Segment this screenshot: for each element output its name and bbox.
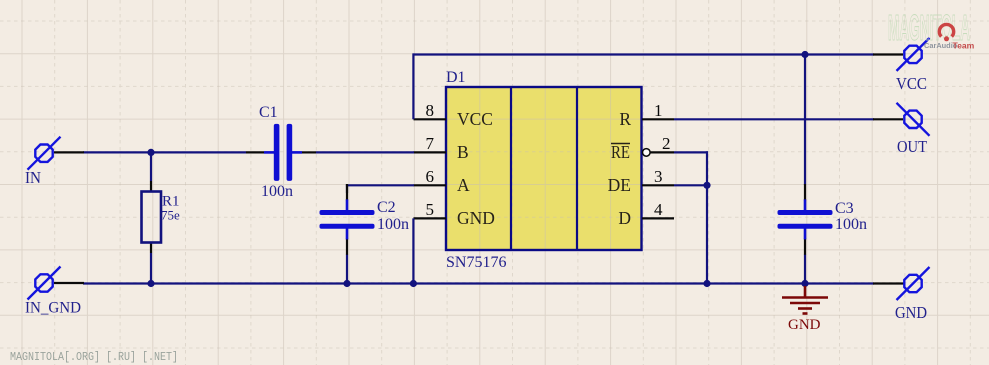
resistor R1	[142, 181, 162, 253]
pin 8 (VCC)	[414, 101, 493, 129]
wire RE/DE tie vertical	[706, 151, 708, 283]
watermark MAGNITOLA[.ORG]	[10, 351, 178, 364]
pin 1 (R)	[619, 101, 674, 129]
wire C2 bottom lead	[346, 254, 348, 283]
junction pin5/rail	[410, 280, 417, 287]
pin 3 (DE)	[608, 167, 674, 195]
pin 6 (A)	[414, 167, 471, 195]
designator R1	[162, 194, 180, 210]
svg-text:IN_GND: IN_GND	[25, 300, 81, 317]
svg-text:GND: GND	[788, 317, 821, 333]
svg-text:D1: D1	[446, 69, 466, 86]
stub VCC port	[873, 53, 903, 55]
svg-text:Team: Team	[953, 41, 975, 51]
part number SN75176	[446, 254, 506, 271]
port VCC	[897, 38, 930, 71]
svg-text:RE: RE	[611, 142, 630, 162]
svg-text:8: 8	[426, 101, 435, 120]
svg-text:GND: GND	[457, 208, 495, 228]
net label IN	[25, 168, 41, 187]
svg-text:DE: DE	[608, 175, 631, 195]
svg-text:5: 5	[426, 200, 435, 219]
port IN_GND	[28, 267, 61, 300]
pin 2 (RE)	[611, 134, 674, 162]
wire pin 1 to OUT	[674, 118, 874, 120]
junction C3/rail	[801, 280, 808, 287]
wire pin 6 to C2	[346, 184, 414, 186]
wire R1 bottom	[150, 253, 152, 284]
value 75e	[161, 208, 180, 223]
junction tie/rail	[703, 280, 710, 287]
svg-text:IN: IN	[25, 168, 41, 187]
wire top VCC rail	[413, 53, 874, 55]
junction R1/rail	[147, 280, 154, 287]
svg-text:3: 3	[654, 167, 663, 186]
wire C3 bottom lead	[804, 254, 806, 283]
capacitor C3	[778, 184, 833, 255]
wire R1 top	[150, 152, 152, 181]
pin 7 (B)	[414, 134, 469, 162]
wire pin 2 horizontal	[674, 151, 708, 153]
wire C2 top lead	[346, 184, 348, 193]
junction VCC rail/C3	[801, 51, 808, 58]
svg-text:6: 6	[426, 167, 435, 186]
svg-text:SN75176: SN75176	[446, 254, 506, 271]
port GND	[897, 267, 930, 300]
IC D1 body	[446, 87, 642, 250]
stub GND port	[873, 282, 904, 284]
designator C3	[835, 200, 854, 217]
net label GND (port)	[895, 303, 927, 322]
wire pin 5 drop	[412, 218, 414, 283]
wire pin 8 riser	[412, 53, 414, 119]
svg-text:VCC: VCC	[457, 109, 493, 129]
svg-text:D: D	[618, 208, 631, 228]
net label VCC	[896, 74, 927, 93]
port OUT	[897, 103, 930, 136]
svg-text:2: 2	[662, 134, 671, 153]
pin 5 (GND)	[414, 200, 495, 228]
capacitor C2	[320, 184, 375, 255]
stub IN_GND port	[54, 282, 84, 284]
svg-text:A: A	[457, 175, 470, 195]
logo MAGNITOLA	[888, 7, 975, 51]
svg-text:OUT: OUT	[897, 137, 928, 156]
IC D1 SN75176 outline	[446, 87, 642, 250]
value 100n (C1)	[261, 183, 293, 200]
designator D1	[446, 69, 466, 86]
wire ground rail	[83, 282, 874, 284]
net label IN_GND	[25, 300, 81, 317]
svg-text:100n: 100n	[261, 183, 293, 200]
wire C3 top lead	[804, 55, 806, 186]
svg-text:4: 4	[654, 200, 663, 219]
designator C1	[259, 104, 278, 121]
ground GND power symbol	[782, 286, 828, 314]
wire pin 3 horizontal	[674, 184, 708, 186]
svg-text:GND: GND	[895, 303, 927, 322]
svg-text:R: R	[619, 109, 631, 129]
junction C2/rail	[343, 280, 350, 287]
svg-text:C1: C1	[259, 104, 278, 121]
wire IN to C1	[83, 151, 246, 153]
net label OUT	[897, 137, 928, 156]
svg-text:C3: C3	[835, 200, 854, 217]
svg-text:MAGNITOLA[.ORG] [.RU] [.NET]: MAGNITOLA[.ORG] [.RU] [.NET]	[10, 351, 178, 364]
svg-text:75e: 75e	[161, 208, 180, 223]
svg-text:1: 1	[654, 101, 663, 120]
pin 2 inversion bubble	[643, 149, 651, 157]
value 100n (C2)	[377, 216, 409, 233]
svg-text:B: B	[457, 142, 469, 162]
svg-text:100n: 100n	[835, 216, 867, 233]
stub IN port	[54, 151, 84, 153]
designator C2	[377, 199, 396, 216]
svg-text:7: 7	[426, 134, 435, 153]
port IN	[28, 137, 61, 170]
svg-text:C2: C2	[377, 199, 396, 216]
svg-text:VCC: VCC	[896, 74, 927, 93]
capacitor C1	[246, 124, 316, 181]
pin 4 (D)	[618, 200, 674, 228]
junction R1/IN	[147, 149, 154, 156]
net label GND (power)	[788, 317, 821, 333]
stub OUT port	[873, 118, 903, 120]
value 100n (C3)	[835, 216, 867, 233]
wire C1 to pin 7	[316, 151, 414, 153]
junction RE-DE	[703, 182, 710, 189]
svg-text:100n: 100n	[377, 216, 409, 233]
